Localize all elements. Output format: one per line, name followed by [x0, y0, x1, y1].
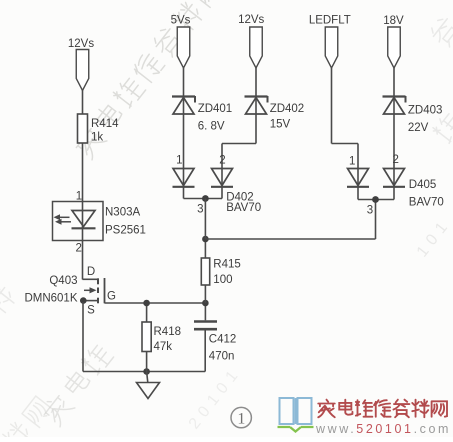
- svg-text:22V: 22V: [408, 122, 429, 134]
- svg-text:PS2561: PS2561: [105, 225, 146, 237]
- svg-text:2: 2: [75, 243, 81, 255]
- svg-text:Q403: Q403: [49, 275, 77, 287]
- svg-text:1: 1: [176, 155, 182, 167]
- svg-text:C412: C412: [209, 334, 237, 346]
- svg-text:1: 1: [76, 191, 82, 203]
- svg-text:1: 1: [349, 156, 355, 168]
- svg-text:2: 2: [219, 155, 225, 167]
- svg-text:1: 1: [237, 411, 245, 428]
- svg-text:LEDFLT: LEDFLT: [309, 15, 351, 27]
- svg-text:N303A: N303A: [105, 207, 140, 219]
- svg-text:47k: 47k: [154, 341, 173, 353]
- svg-text:G: G: [107, 291, 116, 303]
- svg-text:ZD403: ZD403: [408, 105, 443, 117]
- svg-text:18V: 18V: [383, 15, 404, 27]
- svg-text:5Vs: 5Vs: [171, 15, 191, 27]
- svg-text:15V: 15V: [270, 119, 291, 131]
- svg-text:12Vs: 12Vs: [68, 38, 94, 50]
- svg-text:ZD402: ZD402: [270, 103, 305, 115]
- svg-text:1k: 1k: [91, 132, 103, 144]
- svg-text:ZD401: ZD401: [198, 103, 233, 115]
- svg-text:6. 8V: 6. 8V: [198, 121, 225, 133]
- svg-text:100: 100: [213, 274, 232, 286]
- svg-text:R418: R418: [154, 326, 182, 338]
- svg-text:3: 3: [197, 204, 203, 216]
- svg-text:DMN601K: DMN601K: [24, 293, 77, 305]
- svg-text:2: 2: [392, 154, 398, 166]
- svg-text:BAV70: BAV70: [409, 197, 444, 209]
- svg-text:S: S: [87, 305, 95, 317]
- svg-text:470n: 470n: [209, 351, 235, 363]
- svg-text:D405: D405: [409, 179, 437, 191]
- svg-text:3: 3: [367, 205, 373, 217]
- svg-text:BAV70: BAV70: [226, 202, 261, 214]
- svg-text:R415: R415: [213, 259, 241, 271]
- svg-text:12Vs: 12Vs: [238, 14, 264, 26]
- svg-text:D: D: [87, 266, 95, 278]
- svg-text:R414: R414: [91, 118, 119, 130]
- svg-text:www.520101.com: www.520101.com: [315, 422, 451, 436]
